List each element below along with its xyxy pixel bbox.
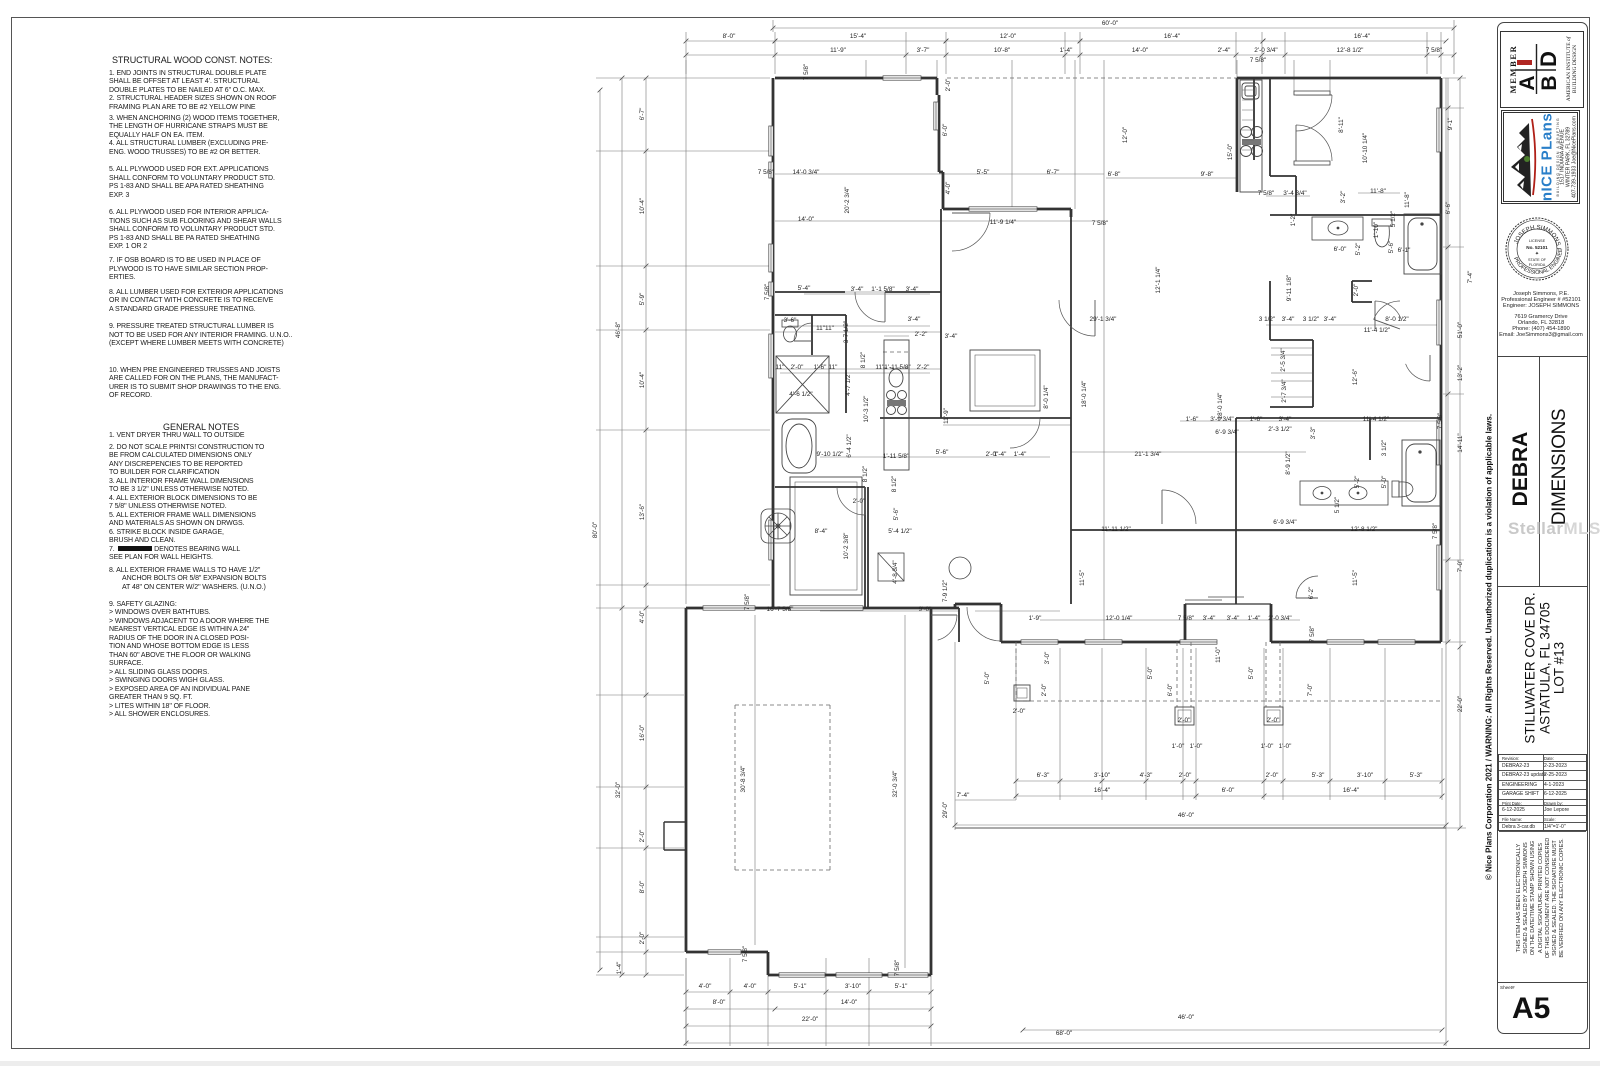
wall — [775, 291, 845, 293]
member AIBD box — [1500, 31, 1584, 108]
window — [1180, 640, 1217, 644]
DEBRA — [1520, 468, 1522, 470]
wall — [938, 160, 941, 172]
window — [769, 126, 773, 156]
svg-text:B: B — [1538, 75, 1557, 90]
nice plans logo box — [1501, 110, 1580, 204]
title block strip — [1497, 22, 1588, 1034]
wall — [1270, 175, 1296, 177]
engineer seal — [1504, 216, 1570, 282]
wall — [880, 417, 943, 419]
wall — [1312, 340, 1314, 407]
project name column divider — [1539, 357, 1540, 586]
window — [888, 973, 928, 977]
wall — [1295, 176, 1297, 215]
wall — [1270, 214, 1441, 216]
window — [769, 334, 773, 378]
svg-text:STATE OF: STATE OF — [1528, 258, 1547, 262]
wall — [1270, 406, 1313, 408]
window — [883, 76, 921, 80]
wall — [1184, 604, 1187, 642]
window — [1437, 108, 1441, 152]
bath1 vanity — [1312, 217, 1363, 240]
svg-text:A: A — [1516, 75, 1539, 90]
DIMENSIONS — [1559, 466, 1561, 468]
wall — [954, 604, 957, 608]
interior extension lines — [1103, 60, 1105, 642]
sliding door — [1185, 597, 1244, 600]
wall — [685, 608, 688, 952]
wall — [772, 78, 775, 608]
master tub — [782, 419, 816, 473]
wall — [943, 208, 1071, 211]
linen shelves — [1271, 347, 1312, 349]
wall — [939, 171, 943, 174]
wall — [1236, 78, 1239, 192]
pantry counter — [884, 340, 909, 470]
watermark — [1508, 519, 1600, 539]
window — [1021, 640, 1058, 644]
window — [769, 244, 773, 272]
svg-text:D: D — [1536, 51, 1557, 67]
svg-text:FLORIDA: FLORIDA — [1529, 263, 1546, 267]
wall — [1440, 78, 1443, 642]
dimension chain: top row2 — [686, 40, 775, 42]
door — [837, 487, 865, 515]
bath2 toilet — [1392, 481, 1413, 497]
door — [1296, 95, 1332, 131]
mountains — [1511, 123, 1531, 197]
svg-text:✦: ✦ — [1535, 251, 1539, 257]
top extension lines — [685, 32, 687, 74]
left dimension columns — [599, 90, 601, 970]
bath1 tub — [1404, 214, 1441, 274]
entry door panels — [1294, 91, 1330, 165]
window — [1378, 640, 1415, 644]
bath2 vanity — [1300, 481, 1388, 505]
wall — [1369, 418, 1371, 460]
wall — [767, 952, 770, 975]
wall — [938, 95, 941, 160]
door — [1374, 301, 1400, 319]
wall — [1070, 209, 1073, 217]
svg-text:No. 52101: No. 52101 — [1526, 245, 1548, 250]
dashed lines — [947, 77, 1237, 79]
wall — [1253, 79, 1255, 160]
copyright rotated text — [1488, 646, 1490, 648]
door — [1059, 300, 1095, 336]
window — [1327, 640, 1364, 644]
door — [1296, 125, 1332, 161]
wall — [1185, 603, 1271, 605]
suite closet shelves — [1242, 89, 1254, 91]
structural notes column — [0, 0, 1, 1]
window — [779, 973, 825, 977]
wall — [936, 78, 939, 95]
window — [1085, 640, 1122, 644]
window — [1437, 545, 1441, 590]
dimension chain: top row 60ft — [773, 27, 1454, 29]
wall — [663, 822, 665, 850]
door — [1162, 490, 1196, 524]
wall — [845, 315, 847, 413]
door — [1375, 301, 1401, 319]
window — [769, 282, 773, 296]
window — [1437, 300, 1441, 345]
wall — [1352, 280, 1372, 282]
wall — [1070, 217, 1072, 604]
master shower — [776, 356, 829, 413]
wall — [1269, 79, 1271, 176]
laundry tub — [878, 553, 904, 581]
window — [769, 162, 773, 178]
misc thin lines — [754, 615, 756, 945]
bottom dimension chains (garage) — [686, 991, 931, 993]
door — [1406, 364, 1430, 381]
wall — [1269, 281, 1271, 340]
address — [1544, 667, 1546, 669]
wall — [775, 77, 937, 80]
door — [1296, 576, 1318, 598]
wall — [1236, 529, 1441, 531]
wall — [664, 849, 686, 851]
wall — [1270, 604, 1273, 642]
window — [1437, 420, 1441, 465]
svg-text:LICENSE: LICENSE — [1529, 239, 1546, 243]
wall — [1351, 281, 1353, 302]
kitchen island — [970, 350, 1040, 411]
door — [967, 607, 1001, 641]
window — [708, 950, 741, 954]
wall — [811, 315, 813, 355]
window — [790, 606, 863, 610]
right dimension columns — [1447, 78, 1449, 642]
AIBD logo — [1535, 68, 1537, 70]
lanai dimension chains — [1016, 780, 1442, 782]
wall — [930, 608, 933, 975]
wall — [775, 314, 846, 316]
window — [769, 520, 773, 560]
wall — [686, 607, 959, 610]
wall — [955, 603, 1001, 606]
dimension chain: top row3 — [686, 54, 1454, 56]
window — [703, 606, 755, 610]
wall — [943, 417, 1071, 419]
wall — [1237, 77, 1441, 80]
lanai slab edge — [955, 827, 1446, 829]
wall — [1271, 641, 1441, 644]
wall — [686, 951, 768, 954]
lanai posts — [1014, 685, 1283, 725]
master toilet — [782, 320, 798, 342]
closet island — [790, 477, 862, 595]
wall — [1071, 529, 1236, 531]
wall — [1352, 301, 1372, 303]
door — [952, 213, 990, 251]
wall — [942, 172, 945, 209]
wall — [664, 821, 686, 823]
wall — [1236, 417, 1441, 419]
wall — [940, 209, 942, 418]
ceiling fan — [761, 509, 795, 543]
wall — [864, 487, 866, 608]
engineer text — [1497, 292, 1585, 338]
wall — [1235, 418, 1237, 604]
water heater — [949, 557, 971, 579]
window — [969, 207, 1037, 211]
kitchen counter — [1240, 80, 1263, 192]
divider — [1498, 356, 1588, 357]
bottom strip — [0, 1061, 1600, 1066]
bath2 tub — [1402, 440, 1440, 506]
wall — [885, 291, 941, 293]
sheet number — [1498, 982, 1588, 983]
window — [934, 102, 938, 130]
wall — [768, 974, 931, 977]
disclaimer — [1540, 897, 1542, 899]
wall — [958, 608, 960, 642]
revision table — [1498, 754, 1587, 831]
wall — [1000, 604, 1003, 642]
wall — [1001, 641, 1185, 644]
window — [836, 973, 882, 977]
wall — [1270, 339, 1313, 341]
divider 2 — [1498, 586, 1588, 587]
bath1 toilet — [1372, 219, 1392, 247]
door — [938, 615, 957, 640]
door — [1010, 418, 1040, 448]
wall — [775, 486, 865, 488]
wall — [867, 487, 869, 608]
door — [794, 323, 812, 341]
door — [855, 292, 885, 322]
